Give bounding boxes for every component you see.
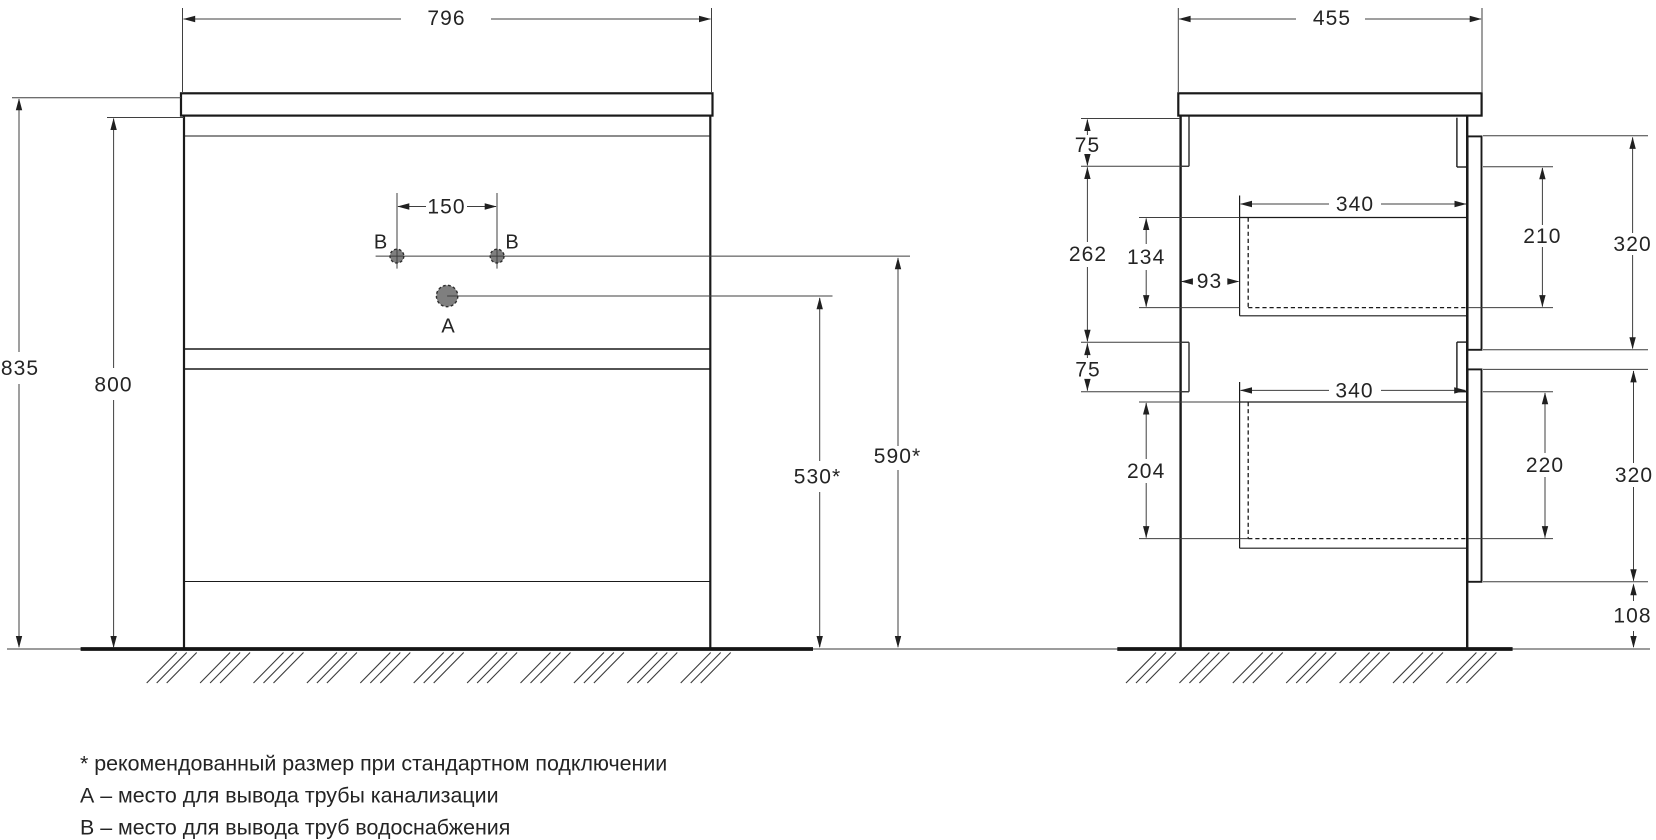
svg-text:210: 210 (1523, 225, 1561, 248)
dimension 835 line (18, 99, 20, 352)
front view cabinet right side (709, 116, 711, 648)
dimension 75 upper extension lines (1081, 118, 1180, 120)
side view front body edge (1466, 116, 1468, 648)
svg-text:320: 320 (1615, 464, 1653, 487)
dimension 150 arrows (397, 203, 409, 209)
dimension 93 line (1182, 281, 1193, 283)
water supply reference line through holes B (376, 255, 910, 257)
side view countertop (1178, 93, 1481, 115)
svg-text:134: 134 (1127, 246, 1165, 269)
side view back middle rail (1181, 341, 1189, 343)
dimension 210 line (1541, 168, 1543, 225)
dimension 800 line (113, 119, 115, 369)
dimension 796 line (184, 18, 402, 20)
dimension 108 line (1633, 585, 1635, 601)
svg-text:204: 204 (1127, 460, 1165, 483)
dimension 75 upper arrows (1084, 119, 1090, 131)
side view upper drawer front (1468, 136, 1482, 349)
dimension 150 extension lines (396, 193, 398, 269)
floor line thick under front view (81, 647, 813, 651)
dimension 75 lower extension line (1081, 391, 1189, 393)
ground hatching under front view (147, 653, 177, 684)
dimension 320 lower extension lines (1483, 368, 1648, 370)
front view bottom panel line (184, 581, 710, 583)
dimension 220 extension lines (1483, 391, 1553, 393)
dimension 262 extension line (1081, 341, 1189, 343)
dimension 262 arrows (1084, 167, 1090, 179)
hole A (436, 285, 457, 306)
dimension 204 extension lines (1139, 401, 1240, 403)
svg-text:590*: 590* (874, 445, 922, 468)
dimension 150 line (398, 206, 426, 208)
dimension 93 arrows (1181, 278, 1193, 284)
hole B left (390, 249, 404, 263)
dimension 796 extension lines (182, 8, 184, 92)
hole B left dashed rim (390, 249, 404, 263)
svg-text:340: 340 (1335, 379, 1373, 402)
upper drawer box left edge (1239, 196, 1241, 316)
svg-text:835: 835 (1, 357, 39, 380)
svg-text:75: 75 (1075, 134, 1101, 157)
hole B right dashed rim (490, 249, 504, 263)
upper drawer box dashed bottom (1248, 307, 1467, 309)
svg-text:* рекомендованный размер при с: * рекомендованный размер при стандартном… (80, 752, 667, 776)
front view countertop (181, 93, 713, 115)
dimension 340 upper line (1241, 203, 1329, 205)
dimension 530 arrows (817, 297, 823, 309)
dimension 134 arrows (1143, 218, 1149, 230)
svg-text:320: 320 (1613, 233, 1651, 256)
dimension 75 upper line (1086, 120, 1088, 136)
dimension 340 lower line (1241, 389, 1329, 391)
dimension 455 line (1179, 18, 1296, 20)
dimension 800 extension line (107, 117, 184, 119)
dimension 340 lower arrows (1240, 387, 1252, 393)
floor line thin (7, 648, 1650, 650)
svg-text:93: 93 (1197, 270, 1223, 293)
dimension 262 line (1086, 167, 1088, 242)
front view top rail line (184, 135, 710, 137)
upper drawer box dashed side (1247, 218, 1249, 308)
dimension 796 arrows (183, 16, 195, 22)
dimension 800 arrows (110, 118, 116, 130)
dimension 320 lower line (1633, 371, 1635, 463)
svg-text:455: 455 (1313, 7, 1351, 30)
lower drawer box dashed side (1247, 402, 1249, 539)
dimension 835 arrows (16, 98, 22, 110)
upper drawer box top (1240, 217, 1468, 219)
hole A dashed rim (436, 285, 457, 306)
svg-text:B: B (505, 231, 518, 253)
dimension 108 arrows (1630, 583, 1636, 595)
front view cabinet left side (183, 116, 185, 648)
front view drawer gap lower line (184, 368, 710, 370)
side view lower drawer front (1468, 369, 1482, 581)
dimension 590 line (897, 258, 899, 446)
lower drawer box dashed bottom (1248, 538, 1467, 540)
dimension 835 extension line (12, 97, 181, 99)
side view front top rail (1456, 118, 1458, 167)
dimension 134 extension lines (1139, 217, 1240, 219)
side view back panel edge (1179, 116, 1181, 648)
svg-text:108: 108 (1613, 604, 1651, 627)
dimension 220 arrows (1542, 392, 1548, 404)
dimension 530 line (819, 298, 821, 461)
svg-text:B: B (374, 231, 387, 253)
dimension 340 upper arrows (1240, 201, 1252, 207)
dimension 320 lower arrows (1630, 370, 1636, 382)
front view drawer gap upper line (184, 348, 710, 350)
svg-text:А – место для вывода трубы кан: А – место для вывода трубы канализации (80, 784, 499, 808)
dimension 210 extension lines (1483, 166, 1553, 168)
svg-text:340: 340 (1336, 193, 1374, 216)
svg-text:220: 220 (1526, 454, 1564, 477)
dimension 590 arrows (895, 257, 901, 269)
svg-text:800: 800 (94, 374, 132, 397)
dimension 204 line (1145, 403, 1147, 459)
dimension 320 upper line (1632, 137, 1634, 233)
dimension 204 arrows (1143, 403, 1149, 415)
svg-text:В – место для вывода труб водо: В – место для вывода труб водоснабжения (80, 816, 510, 840)
hole B right (490, 249, 504, 263)
dimension 455 extension lines (1177, 8, 1179, 92)
lower drawer box bottom (1240, 547, 1468, 549)
dimension 75 lower arrows (1084, 343, 1090, 355)
svg-text:530*: 530* (794, 466, 842, 489)
svg-text:796: 796 (427, 7, 465, 30)
dimension 320 upper extension lines (1483, 135, 1648, 137)
svg-text:150: 150 (427, 196, 465, 219)
svg-text:A: A (441, 315, 455, 337)
svg-text:75: 75 (1075, 359, 1101, 382)
dimension 455 arrows (1179, 16, 1191, 22)
svg-text:262: 262 (1069, 243, 1107, 266)
lower drawer box left edge (1239, 382, 1241, 548)
upper drawer box bottom (1240, 315, 1468, 317)
dimension 320 upper arrows (1629, 137, 1635, 149)
drain reference line from hole A (447, 295, 832, 297)
dimension 134 line (1145, 219, 1147, 245)
side view back top rail (1188, 116, 1190, 167)
lower drawer box top (1240, 401, 1468, 403)
dimension 210 arrows (1539, 167, 1545, 179)
floor line thick under side view (1117, 647, 1512, 651)
dimension 75 lower line (1086, 343, 1088, 358)
dimension 220 line (1544, 393, 1546, 453)
side view front middle rail (1457, 341, 1467, 343)
ground hatching under side view (1126, 653, 1156, 684)
